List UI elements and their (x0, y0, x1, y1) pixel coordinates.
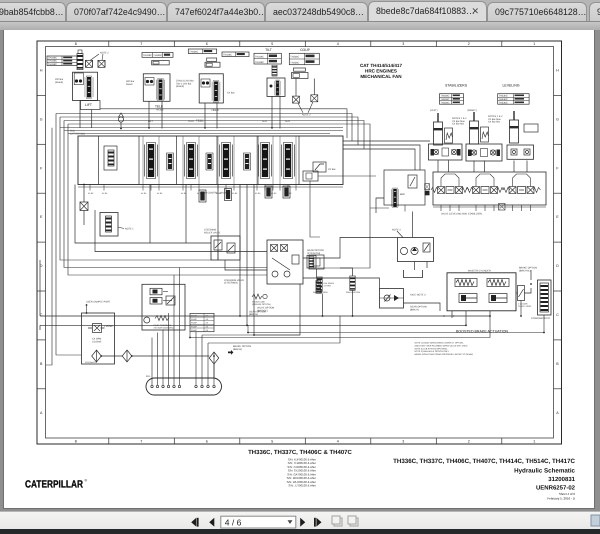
svg-text:PUMP: PUMP (191, 325, 197, 328)
border frame outer (37, 41, 562, 444)
stabilizer left valve block (429, 144, 463, 160)
stab leveling valve bank (433, 172, 546, 205)
svg-text:BRAKE MOUNT AND GEAR PRESSURE: BRAKE MOUNT AND GEAR PRESSURE LIMITED TO… (415, 353, 474, 356)
svg-text:PUMP: PUMP (191, 314, 197, 317)
svg-text:4: 4 (337, 42, 339, 46)
svg-text:A1 B1: A1 B1 (255, 192, 261, 195)
pump size table (190, 313, 214, 331)
pilot supply block (142, 284, 185, 330)
svg-text:6: 6 (206, 42, 208, 46)
svg-text:FAN LOW RPM: FAN LOW RPM (346, 291, 360, 294)
wire nested rect mid (75, 185, 211, 244)
svg-text:7: 7 (140, 42, 142, 46)
leveling cylinder (510, 111, 519, 143)
svg-text:L/D BAR: L/D BAR (92, 340, 102, 343)
svg-text:(STEERING): (STEERING) (224, 282, 238, 285)
svg-text:(LIFT/STACK): (LIFT/STACK) (70, 132, 85, 135)
svg-text:31200831: 31200831 (548, 476, 575, 483)
svg-text:3: 3 (402, 42, 404, 46)
svg-text:7: 7 (140, 440, 142, 444)
svg-text:3: 3 (402, 440, 404, 444)
svg-text:NOTE 1: NOTE 1 (125, 228, 134, 231)
svg-text:February 5, 2016 - D: February 5, 2016 - D (547, 497, 576, 501)
band bottom double edge (78, 186, 343, 188)
hanging port stubs (89, 185, 91, 191)
svg-text:PUMP: PUMP (191, 322, 197, 325)
label table COUP (289, 53, 319, 64)
svg-text:C: C (40, 313, 43, 317)
svg-text:XXX BAR (MAX/MIN): XXX BAR (MAX/MIN) (154, 327, 174, 330)
svg-text:6: 6 (206, 440, 208, 444)
bank bottom edge (433, 206, 546, 208)
stabilizer left pilot box (445, 128, 453, 143)
clean lube symbol (252, 294, 262, 299)
label table LIFT (47, 56, 77, 66)
svg-text:A1 B1: A1 B1 (181, 192, 187, 195)
svg-text:F: F (556, 166, 559, 170)
svg-text:(RIGHT): (RIGHT) (468, 109, 477, 112)
svg-text:B: B (40, 362, 43, 366)
svg-text:XX Bar: XX Bar (328, 168, 336, 171)
svg-text:A1 B1: A1 B1 (88, 192, 94, 195)
svg-text:AXLE NOTE 3: AXLE NOTE 3 (410, 294, 426, 297)
svg-text:Hydraulic Schematic: Hydraulic Schematic (514, 468, 575, 475)
svg-text:XX Bar Min: XX Bar Min (452, 123, 465, 126)
main control valve outline (78, 136, 343, 185)
svg-text:(BRK B): (BRK B) (233, 348, 242, 351)
wire COUP down (295, 79, 297, 97)
note1 valve (100, 213, 118, 237)
svg-text:USER SAMPLE PORT: USER SAMPLE PORT (86, 300, 111, 303)
svg-text:(BRK P.B.): (BRK P.B.) (519, 269, 531, 272)
wire verticals band-to-lower (239, 185, 241, 317)
svg-text:TH336C: TH336C (143, 54, 152, 57)
svg-text:PILOT PRESSURE: PILOT PRESSURE (154, 324, 173, 327)
label table TELE1 (142, 53, 173, 58)
svg-text:1: 1 (533, 440, 535, 444)
stabilizer right pilot box (481, 127, 489, 142)
svg-text:2: 2 (468, 42, 470, 46)
wires master cylinder (465, 311, 467, 322)
svg-text:G: G (556, 117, 559, 121)
svg-text:4: 4 (337, 440, 339, 444)
border frame inner (46, 47, 554, 439)
zone numbers bottom (75, 438, 535, 444)
svg-text:L PUMP: L PUMP (104, 325, 113, 328)
svg-text:TH336C, TH337C, TH406C, TH407C: TH336C, TH337C, TH406C, TH407C, TH414C, … (393, 458, 575, 465)
hydraulic tank (146, 378, 222, 395)
drain valve (80, 202, 88, 211)
axle check valve (380, 289, 404, 309)
wire pump run (101, 355, 122, 357)
svg-text:(LEFT): (LEFT) (430, 109, 438, 112)
svg-text:MAIN CONTROL VALVE: MAIN CONTROL VALVE (201, 191, 228, 194)
svg-text:A1 B1: A1 B1 (141, 192, 147, 195)
TELE2 valve block (199, 74, 223, 103)
zone letters sides (37, 69, 562, 415)
svg-text:NOTE 3) MAIN AXLE OPTION ONLY: NOTE 3) MAIN AXLE OPTION ONLY (415, 350, 450, 353)
svg-text:A1 B1: A1 B1 (157, 192, 163, 195)
wire left spine verticals (60, 117, 211, 260)
svg-text:8: 8 (75, 440, 77, 444)
LIFT valve block (73, 72, 98, 100)
svg-text:8: 8 (75, 42, 77, 46)
wire right vertical run (316, 153, 370, 268)
table STABILIZERS (440, 94, 464, 105)
svg-text:H: H (40, 69, 43, 73)
svg-text:CATERPILLAR: CATERPILLAR (25, 479, 83, 490)
svg-text:C: C (556, 313, 559, 317)
TELE1 valve block (143, 74, 170, 102)
note text CAT TH414 (360, 63, 402, 79)
svg-text:S/N: JJT00100 & After: S/N: JJT00100 & After (288, 484, 316, 488)
title block (393, 458, 576, 501)
svg-text:5: 5 (271, 440, 273, 444)
svg-text:LIFT: LIFT (85, 103, 92, 107)
svg-text:TH336C: TH336C (499, 101, 508, 104)
svg-text:F: F (453, 315, 455, 318)
svg-text:BRK: BRK (400, 193, 405, 196)
svg-text:D: D (40, 264, 43, 268)
label tables TELE2 (188, 49, 216, 54)
svg-text:MASTER CYLINDER: MASTER CYLINDER (468, 270, 491, 273)
svg-text:XX Bar: XX Bar (227, 92, 235, 95)
tank ports (151, 385, 153, 387)
svg-text:TH336C: TH336C (153, 54, 162, 57)
svg-text:(Rated): (Rated) (55, 81, 63, 84)
svg-text:NOTE 2) LUB SYSTEM OPTIONAL: NOTE 2) LUB SYSTEM OPTIONAL (415, 347, 449, 350)
svg-text:H: H (556, 69, 559, 73)
pilot valve striped TILT (272, 65, 277, 76)
svg-text:2: 2 (468, 440, 470, 444)
pump box (82, 313, 115, 364)
filter diamond 3 (209, 352, 219, 364)
wire TELE2 down (204, 103, 206, 129)
svg-text:D: D (556, 264, 559, 268)
svg-text:UENR6257-02: UENR6257-02 (536, 484, 576, 491)
svg-text:LEVELING: LEVELING (502, 83, 519, 87)
svg-text:R: R (443, 315, 445, 318)
leveling valve block (507, 145, 534, 159)
svg-text:TH336C, TH337C, TH406C & TH407: TH336C, TH337C, TH406C & TH407C (248, 449, 352, 456)
svg-text:Rated: Rated (126, 83, 133, 86)
svg-text:TH336C: TH336C (48, 63, 57, 66)
svg-text:Sheet 4 of 6: Sheet 4 of 6 (559, 492, 576, 496)
coupler solenoids (293, 96, 300, 103)
svg-text:(BRK P.): (BRK P.) (410, 308, 419, 311)
fan tank symbol (404, 270, 423, 278)
svg-text:HRC ENGINES: HRC ENGINES (365, 69, 397, 74)
wire verticals under stab bank (440, 205, 442, 211)
svg-text:NOTE 4: NOTE 4 (392, 229, 401, 232)
section dividers (98, 136, 100, 185)
breather circle (118, 117, 123, 122)
svg-text:CLEAN LUBE: CLEAN LUBE (252, 301, 266, 304)
svg-text:®: ® (85, 479, 88, 483)
wire LIFT down (79, 101, 81, 128)
svg-text:CAT TH414/514/417: CAT TH414/514/417 (360, 63, 402, 68)
svg-text:A: A (556, 411, 559, 415)
wire long runs lower (248, 332, 544, 334)
wire long top runs (100, 109, 347, 138)
wire steering connections (254, 284, 300, 335)
svg-text:A1 B1: A1 B1 (232, 192, 238, 195)
svg-text:XX RPM: XX RPM (324, 284, 332, 287)
svg-text:(Rated): (Rated) (176, 85, 184, 88)
bank inlet manifold (384, 170, 425, 205)
steering orifice components (307, 256, 316, 269)
svg-text:TH336C: TH336C (290, 56, 299, 59)
svg-text:TH336C: TH336C (255, 56, 264, 59)
svg-text:FILL: FILL (146, 375, 151, 378)
orifice components (317, 277, 322, 291)
svg-text:5: 5 (271, 42, 273, 46)
svg-text:(BRK B): (BRK B) (249, 313, 258, 316)
port boxes below band (199, 190, 206, 202)
wire TELE1 down (148, 101, 150, 128)
wire TILT down (271, 96, 273, 128)
svg-text:MECHANICAL FAN: MECHANICAL FAN (360, 74, 402, 79)
accumulator (538, 280, 552, 315)
gauge circle (144, 317, 150, 323)
svg-text:TH336C: TH336C (441, 101, 450, 104)
wires stab down (437, 161, 439, 173)
cylinder TELE1 (152, 61, 170, 65)
steering valve (267, 240, 303, 284)
label table TILT (254, 53, 281, 64)
TILT valve block (267, 78, 285, 96)
svg-text:A: A (40, 411, 43, 415)
stabilizer left cylinder (434, 113, 443, 145)
svg-text:TH336C: TH336C (189, 51, 198, 54)
junction nodes (239, 315, 241, 317)
svg-text:TILT: TILT (265, 48, 272, 52)
svg-text:PUMP: PUMP (191, 318, 197, 321)
svg-text:STABILIZERS: STABILIZERS (445, 83, 468, 87)
svg-text:G: G (40, 117, 43, 121)
zone numbers top (75, 41, 535, 47)
wire band to bank (343, 140, 430, 142)
stabilizer right valve block (466, 144, 502, 161)
svg-text:4 / 6: 4 / 6 (225, 517, 242, 527)
svg-text:AND (TIER YOUR PLUMBED WHEN VA: AND (TIER YOUR PLUMBED WHEN VALUE NOT US… (415, 344, 468, 347)
svg-text:TH336C: TH336C (290, 61, 299, 64)
inlet relief striped (108, 150, 114, 166)
svg-text:1: 1 (533, 42, 535, 46)
svg-text:STANDARD/ECO: STANDARD/ECO (531, 317, 550, 320)
solenoid valve boxes LIFT (86, 60, 93, 67)
wire gear option (317, 269, 323, 316)
svg-text:A1 B1: A1 B1 (102, 192, 108, 195)
LIFT lower extension (81, 101, 101, 110)
fan motor block (398, 238, 434, 262)
filter diamond 2 (122, 350, 132, 362)
svg-text:TH336C: TH336C (223, 54, 232, 57)
svg-text:F: F (40, 166, 43, 170)
svg-text:NOTE 1) DEAD WHEN BOOM LOWER U: NOTE 1) DEAD WHEN BOOM LOWER UT OPTION, (415, 342, 464, 345)
svg-text:NOTE 2: NOTE 2 (100, 52, 109, 55)
section small component right (313, 162, 326, 172)
svg-text:TH336C: TH336C (255, 61, 264, 64)
svg-text:NOTE 2: NOTE 2 (302, 114, 311, 117)
pilot valve striped LIFT (77, 54, 83, 70)
svg-text:COUP: COUP (300, 48, 311, 52)
cylinders TELE2 (207, 58, 217, 61)
stabilizer right cylinder (470, 112, 479, 144)
wires fan (412, 212, 414, 238)
svg-text:XXX Bar/XXX: XXX Bar/XXX (85, 361, 98, 364)
svg-text:(STD B PSI): (STD B PSI) (307, 252, 320, 255)
svg-text:VALVE (LEVELING AND STABILIZER: VALVE (LEVELING AND STABILIZER) (441, 212, 482, 215)
svg-text:(GREASE OPTION): (GREASE OPTION) (252, 303, 271, 306)
table LEVELING (498, 94, 529, 105)
top rail wires (60, 127, 343, 129)
coupler cylinders (294, 68, 306, 71)
svg-text:PUMP: PUMP (191, 329, 197, 332)
wire accumulator down (543, 315, 545, 333)
wire small box top-left of fan (303, 171, 318, 181)
spool sections (145, 143, 158, 179)
svg-text:B: B (556, 362, 559, 366)
svg-text:CHECK SPRG: CHECK SPRG (518, 305, 532, 308)
bank inlet component (425, 184, 430, 190)
section pilot lines (142, 136, 144, 185)
svg-text:XX Bar Min: XX Bar Min (488, 121, 501, 124)
wire long bottom runs (40, 311, 490, 316)
filter diamond 1 (92, 350, 102, 362)
svg-text:E: E (40, 215, 43, 219)
svg-text:E: E (556, 215, 559, 219)
svg-text:XX: XX (206, 322, 209, 325)
tank risers (151, 338, 153, 386)
